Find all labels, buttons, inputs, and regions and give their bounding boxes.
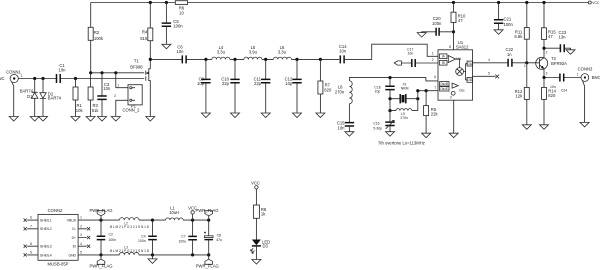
svg-text:1: 1 xyxy=(117,84,119,88)
wire T1 source to ground xyxy=(149,80,151,116)
svg-text:2: 2 xyxy=(80,224,82,228)
svg-text:C16: C16 xyxy=(373,122,379,126)
wire input signal net xyxy=(18,77,144,80)
ground (GND net) xyxy=(148,255,157,264)
svg-text:SHEIL2: SHEIL2 xyxy=(40,227,52,231)
svg-text:ID: ID xyxy=(73,245,77,249)
svg-text:IB: IB xyxy=(442,61,445,65)
ferrite bead L2 BLM21PG221SN1D xyxy=(110,218,150,229)
svg-text:10uH: 10uH xyxy=(169,210,179,215)
ground (R5) xyxy=(422,133,431,138)
svg-text:7th overtone Lo=113MHz: 7th overtone Lo=113MHz xyxy=(378,140,425,145)
svg-text:NRM: NRM xyxy=(401,86,409,90)
wire GND net xyxy=(78,253,210,256)
svg-text:OscB: OscB xyxy=(440,82,448,86)
diode D2 BAR74 xyxy=(40,79,62,117)
inductor L4 3.3u xyxy=(212,45,230,60)
connector P1 CONN_2 xyxy=(114,73,142,117)
resistor R5 22k xyxy=(424,91,439,134)
ground (C12) xyxy=(293,113,302,118)
resistor R4 510 xyxy=(140,3,153,42)
resistor R2 100k xyxy=(88,3,104,73)
svg-text:1: 1 xyxy=(21,74,23,78)
ground (R12) xyxy=(522,125,531,130)
capacitor C15 10n xyxy=(337,120,354,131)
svg-text:VCC: VCC xyxy=(251,181,260,186)
diode D1 BAR74 xyxy=(20,79,38,117)
svg-text:100n: 100n xyxy=(173,24,183,29)
resistor R14 820 xyxy=(542,78,557,125)
svg-text:10p: 10p xyxy=(285,81,293,86)
svg-text:10p: 10p xyxy=(197,81,205,86)
ground (T1 source) xyxy=(146,117,155,122)
wire U1 pin3 to ground xyxy=(450,96,454,134)
svg-text:22p: 22p xyxy=(254,81,262,86)
svg-text:9: 9 xyxy=(30,251,32,255)
svg-text:VCC: VCC xyxy=(592,1,600,5)
svg-text:3.9u: 3.9u xyxy=(249,50,258,55)
svg-text:OscE: OscE xyxy=(440,87,448,91)
inductor L8 270n xyxy=(335,81,352,123)
capacitor C11 22p xyxy=(254,59,271,113)
svg-text:100u: 100u xyxy=(179,239,187,243)
svg-text:6.8k: 6.8k xyxy=(514,34,523,39)
wire T1 drain xyxy=(149,41,151,69)
resistor R6 10 (in VCC rail) xyxy=(175,1,187,16)
svg-text:4: 4 xyxy=(80,242,82,246)
ground (R3) xyxy=(86,117,95,122)
svg-text:3: 3 xyxy=(450,96,452,100)
capacitor C24 10n xyxy=(550,74,567,93)
svg-text:10n: 10n xyxy=(407,51,413,55)
inductor L5 3.9u xyxy=(244,45,262,60)
svg-text:BAR74: BAR74 xyxy=(48,96,62,101)
svg-text:10k: 10k xyxy=(76,108,84,113)
capacitor C9 10p xyxy=(197,59,211,113)
crystal X1 NRM xyxy=(388,83,419,104)
svg-text:100n: 100n xyxy=(432,21,442,26)
ground (U1 pin3) xyxy=(449,133,458,138)
svg-text:C2: C2 xyxy=(109,233,113,237)
svg-text:6: 6 xyxy=(30,216,32,220)
svg-text:10n: 10n xyxy=(177,49,185,54)
wire U1 pin5 no-connect xyxy=(473,71,500,78)
polarized capacitor C8 47u xyxy=(204,220,222,255)
ground (C23 right) xyxy=(566,50,575,55)
svg-text:BLM21PG221SN1D: BLM21PG221SN1D xyxy=(110,249,150,253)
wire VCC top rail xyxy=(91,1,589,4)
capacitor C10 22p xyxy=(221,59,239,113)
svg-text:47u: 47u xyxy=(216,238,222,242)
ground (CONN3) xyxy=(580,122,589,127)
svg-text:820: 820 xyxy=(324,87,332,92)
capacitor C3 10n xyxy=(97,73,111,117)
wire gate-2 bias net xyxy=(89,71,144,74)
svg-text:7: 7 xyxy=(434,86,436,90)
svg-text:C4: C4 xyxy=(141,234,145,238)
svg-text:5-30p: 5-30p xyxy=(373,126,382,130)
svg-text:1n: 1n xyxy=(507,52,512,57)
capacitor C20 100n xyxy=(422,16,454,36)
svg-text:MUSB-05P: MUSB-05P xyxy=(48,262,69,267)
power flag (GND left bottom) xyxy=(89,255,112,269)
transistor T2 BFR93A xyxy=(524,48,567,77)
capacitor C17 10n xyxy=(407,48,415,67)
svg-text:D1: D1 xyxy=(27,94,33,99)
svg-text:BLM21PG221SN1D: BLM21PG221SN1D xyxy=(110,225,150,229)
svg-text:L9: L9 xyxy=(401,112,405,116)
power symbol VCC (bottom) xyxy=(188,205,197,220)
inductor L6 3.3u xyxy=(273,45,291,60)
svg-text:510: 510 xyxy=(140,36,148,41)
svg-text:10n: 10n xyxy=(59,68,67,73)
capacitor C23 10n xyxy=(559,30,567,52)
ground (C16) xyxy=(386,132,395,137)
ground (R14) xyxy=(540,125,549,130)
power flag (VBUS left) xyxy=(89,208,112,220)
capacitor C12 10p xyxy=(285,59,302,113)
wire oscillator top net (to U1 pin6) xyxy=(349,75,438,81)
svg-text:SA612: SA612 xyxy=(456,44,469,49)
svg-text:D+: D+ xyxy=(72,236,76,240)
svg-text:1: 1 xyxy=(80,216,82,220)
svg-text:3.3u: 3.3u xyxy=(278,50,287,55)
ground (C15) xyxy=(345,132,354,137)
IC U1 SA612 xyxy=(438,40,473,100)
ground (R7) xyxy=(316,113,325,118)
svg-text:47: 47 xyxy=(458,18,463,23)
svg-text:12k: 12k xyxy=(516,94,524,99)
power flag (VBUS right) xyxy=(195,208,218,220)
svg-text:C7: C7 xyxy=(181,235,185,239)
svg-text:D-: D- xyxy=(72,227,76,231)
svg-text:T1: T1 xyxy=(134,59,140,64)
capacitor C21 100n xyxy=(494,3,514,30)
ground (C10) xyxy=(231,113,240,118)
wire drain / filter rail xyxy=(149,58,340,61)
wire U1 pin7 net xyxy=(416,86,438,111)
wire emitter node xyxy=(542,76,581,79)
svg-text:270n: 270n xyxy=(335,89,345,94)
inductor L1 10uH xyxy=(166,206,184,221)
resistor R15 47 xyxy=(542,3,557,49)
svg-text:R2: R2 xyxy=(94,30,100,35)
svg-text:270n: 270n xyxy=(400,116,408,120)
capacitor C6 10n xyxy=(177,44,187,63)
capacitor C22 1n xyxy=(505,47,513,67)
ground (P1 pin2) xyxy=(111,117,120,122)
svg-text:2: 2 xyxy=(432,58,434,62)
power symbol VCC (LED branch) xyxy=(251,181,260,206)
svg-text:100n: 100n xyxy=(504,22,514,27)
svg-text:C21: C21 xyxy=(504,16,512,21)
resistor R3 51k xyxy=(88,73,99,117)
svg-text:10n: 10n xyxy=(339,49,347,54)
capacitor C2 100n xyxy=(97,220,116,255)
svg-text:10n: 10n xyxy=(338,125,346,130)
resistor R8 1k xyxy=(253,205,267,240)
capacitor C18 10p xyxy=(374,78,394,99)
ground (D2) xyxy=(39,117,48,122)
svg-text:PWR_FLAG: PWR_FLAG xyxy=(89,208,112,213)
svg-text:100n: 100n xyxy=(109,238,117,242)
capacitor C1 10n xyxy=(57,63,67,83)
ground (CONN1) xyxy=(9,117,18,122)
svg-text:VBUS: VBUS xyxy=(67,218,77,222)
power flag (GND bottom) xyxy=(196,255,219,269)
svg-text:PWR_FLAG: PWR_FLAG xyxy=(196,264,219,269)
capacitor C5 100n xyxy=(162,3,184,45)
svg-text:3: 3 xyxy=(80,233,82,237)
ground (C21) xyxy=(494,30,503,35)
svg-text:47: 47 xyxy=(548,34,553,39)
capacitor C4 100n xyxy=(138,220,157,255)
svg-text:CONN3: CONN3 xyxy=(578,66,593,71)
svg-text:SHEIL1: SHEIL1 xyxy=(40,218,52,222)
svg-text:1: 1 xyxy=(577,73,579,77)
svg-text:1: 1 xyxy=(432,52,434,56)
svg-text:SHEIL4: SHEIL4 xyxy=(40,253,52,257)
ground (C11) xyxy=(261,113,270,118)
svg-text:GND: GND xyxy=(68,253,76,257)
resistor R11 6.8k xyxy=(514,3,529,63)
svg-text:22p: 22p xyxy=(222,81,230,86)
svg-text:CONN2: CONN2 xyxy=(48,208,63,213)
power symbol VCC top right xyxy=(588,1,600,5)
svg-text:CONN1: CONN1 xyxy=(6,69,21,74)
ground (C9) xyxy=(201,113,210,118)
svg-text:PWR_FLAG: PWR_FLAG xyxy=(195,208,218,213)
resistor R12 12k xyxy=(515,63,530,125)
svg-text:BNC: BNC xyxy=(592,75,600,80)
svg-text:3.3u: 3.3u xyxy=(217,50,226,55)
capacitor C14 10n xyxy=(339,44,347,63)
ground (C20 left) xyxy=(417,33,426,38)
svg-text:4: 4 xyxy=(488,58,490,62)
svg-text:2: 2 xyxy=(546,51,548,55)
svg-text:7: 7 xyxy=(30,224,32,228)
svg-text:OB: OB xyxy=(467,78,472,82)
svg-text:1: 1 xyxy=(524,64,526,68)
svg-text:C24: C24 xyxy=(561,88,567,92)
svg-text:6: 6 xyxy=(434,75,436,79)
svg-text:100n: 100n xyxy=(138,239,146,243)
svg-text:BFR93A: BFR93A xyxy=(551,61,567,66)
trimmer capacitor C16 5-30p xyxy=(373,111,394,132)
svg-text:10n: 10n xyxy=(103,86,111,91)
wire VBUS net xyxy=(78,219,210,222)
resistor R10 47 xyxy=(451,3,466,24)
svg-text:100k: 100k xyxy=(94,36,104,41)
ground (LED) xyxy=(252,260,261,265)
svg-text:C8: C8 xyxy=(217,233,221,237)
svg-text:820: 820 xyxy=(548,93,556,98)
svg-text:22k: 22k xyxy=(431,112,439,117)
svg-text:8: 8 xyxy=(449,45,451,49)
inductor L9 270n xyxy=(388,99,417,121)
connector CONN2 MUSB-05P xyxy=(24,208,91,266)
svg-text:10: 10 xyxy=(179,10,184,15)
ground (R1) xyxy=(71,117,80,122)
svg-text:Osc: Osc xyxy=(459,88,465,92)
ground (C3) xyxy=(98,117,107,122)
svg-text:5: 5 xyxy=(80,251,82,255)
svg-text:BNC: BNC xyxy=(0,76,5,81)
svg-text:2: 2 xyxy=(114,94,116,98)
ferrite bead L3 BLM21PG221SN1D xyxy=(110,245,150,255)
ground (D1) xyxy=(30,117,39,122)
capacitor C7 100u xyxy=(179,220,197,255)
svg-text:51k: 51k xyxy=(92,108,100,113)
global label arrow (U1 pin2 input) xyxy=(394,61,401,65)
svg-text:CONN_2: CONN_2 xyxy=(123,108,141,113)
resistor R1 10k xyxy=(73,79,83,117)
svg-text:PWR_FLAG: PWR_FLAG xyxy=(89,264,112,269)
LED D3 xyxy=(251,239,271,259)
ground (C5) xyxy=(162,44,171,49)
transistor T1 BF998 xyxy=(130,59,150,82)
svg-text:3: 3 xyxy=(546,72,548,76)
svg-text:5: 5 xyxy=(488,71,490,75)
svg-text:10p: 10p xyxy=(375,90,381,94)
connector CONN1 BNC input xyxy=(0,69,23,116)
connector CONN3 BNC output xyxy=(577,66,600,122)
wire C14 to U1 pin1 xyxy=(344,44,438,59)
resistor R7 820 xyxy=(318,59,332,113)
svg-text:SHEIL3: SHEIL3 xyxy=(40,245,52,249)
wire collector node xyxy=(542,47,570,50)
svg-text:13n: 13n xyxy=(559,34,567,39)
wire U1 pin8 (VCC) xyxy=(449,22,455,49)
svg-text:8: 8 xyxy=(30,242,32,246)
wire U1 pin4 to C22 xyxy=(473,58,529,65)
svg-text:D3: D3 xyxy=(263,244,269,249)
wire pin2 net xyxy=(401,62,438,64)
svg-text:BF998: BF998 xyxy=(130,64,143,69)
svg-text:R4: R4 xyxy=(142,29,148,34)
